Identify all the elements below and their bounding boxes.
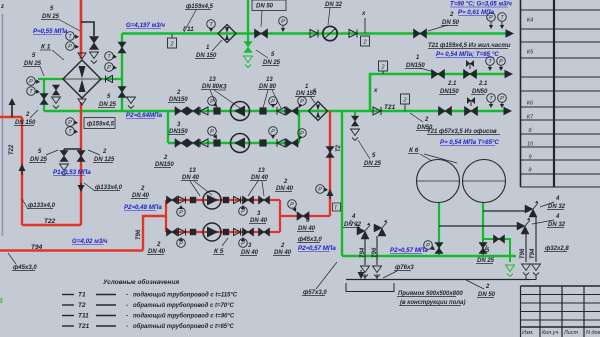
legend line Т1 [62, 294, 74, 296]
svg-text:ф159х4,5: ф159х4,5 [87, 121, 115, 128]
wire: green riser from K1 right to top main [121, 34, 123, 112]
svg-text:ф45х3,0: ф45х3,0 [298, 236, 322, 243]
tag box 2 top main [171, 34, 173, 38]
arrow up on T22 riser [21, 168, 23, 175]
gauge P K3 l3 [298, 129, 307, 138]
gauge P K5 discharge [288, 200, 297, 209]
wire: relief discharge 1 [535, 217, 537, 262]
svg-text:Р: Р [271, 129, 275, 135]
funnel K1 left drain [52, 97, 61, 104]
gauge P K1 left [27, 77, 36, 86]
valve top main x261 [255, 29, 268, 38]
node: K1 top connection [78, 53, 86, 59]
svg-text:Условные обозначения: Условные обозначения [103, 278, 179, 286]
svg-text:2: 2 [362, 40, 366, 46]
title block grid [521, 286, 600, 337]
svg-text:P2≈0,57 МПа: P2≈0,57 МПа [390, 247, 428, 254]
expansion tank 1 [417, 160, 460, 203]
svg-text:DN150: DN150 [169, 129, 188, 135]
wire: K5 upper pump branch [166, 199, 280, 201]
gauge P K3 u3 [298, 97, 307, 106]
wire: tank2 safety line [483, 210, 529, 212]
svg-text:DN 32: DN 32 [548, 204, 566, 210]
svg-text:К7: К7 [527, 115, 534, 121]
gauge P top main [279, 17, 288, 26]
wire: green supply top main Г11 [122, 32, 508, 35]
table: equipment list [521, 0, 600, 187]
svg-text:Т1: Т1 [78, 292, 86, 299]
svg-text:Р: Р [107, 65, 111, 71]
drain valve on stub x355 [352, 116, 359, 126]
green drain valve x248 [244, 42, 252, 53]
valve top main x420 [414, 29, 427, 38]
motor valve mid main [465, 107, 478, 116]
svg-text:DN150: DN150 [440, 89, 459, 95]
svg-text:4: 4 [351, 214, 356, 220]
wire: drain stub on mid main x355 [354, 111, 356, 119]
arrow down on red return [80, 183, 82, 189]
svg-text:ф133х4,0: ф133х4,0 [95, 184, 123, 191]
arrow down into pit [360, 270, 362, 273]
gauge P K5 u2 [239, 207, 248, 216]
svg-text:DN150: DN150 [155, 162, 174, 168]
svg-text:DN 150: DN 150 [15, 120, 36, 126]
valve K5 discharge [297, 212, 309, 220]
valve tank2 drop [479, 243, 487, 254]
svg-text:Р≈ 0,54 МПа Т=65°С: Р≈ 0,54 МПа Т=65°С [440, 139, 500, 146]
label DN50 top [252, 0, 286, 11]
valve K3 upper inlet 1 [175, 107, 187, 115]
check valve K3 upper [200, 107, 208, 115]
svg-text:Т94: Т94 [31, 244, 43, 251]
svg-text:Р: Р [300, 131, 304, 137]
gauge T mid end [487, 94, 496, 103]
svg-text:DN 40: DN 40 [148, 249, 166, 255]
svg-text:DN50: DN50 [472, 89, 488, 95]
svg-text:Г11: Г11 [183, 26, 194, 33]
wire: red mixing riser up to mid main [329, 111, 331, 216]
svg-text:DN 40: DN 40 [276, 186, 294, 192]
relief valve upper [525, 205, 533, 213]
valve K5 lower inlet [167, 228, 178, 236]
valve K3 lower outlet [286, 139, 298, 147]
svg-text:Р: Р [179, 210, 183, 216]
isolator K3 lower left [213, 139, 220, 146]
svg-text:Р: Р [500, 96, 504, 102]
svg-text:Изм.: Изм. [522, 330, 534, 336]
valve K5 upper out1 [243, 196, 254, 204]
svg-text:4: 4 [555, 196, 560, 202]
svg-text:DN 40: DN 40 [241, 250, 259, 256]
svg-text:Р: Р [499, 59, 503, 65]
svg-text:Т22: Т22 [44, 218, 56, 225]
svg-text:DN 25: DN 25 [364, 161, 382, 167]
svg-text:DN150: DN150 [406, 63, 425, 69]
valve mid main x445 [439, 107, 452, 116]
svg-text:2: 2 [280, 243, 285, 249]
svg-text:G=4,197 м3/ч: G=4,197 м3/ч [126, 22, 165, 29]
flow meter on top main [323, 26, 337, 40]
valve on green riser lower [118, 87, 126, 98]
svg-text:Т21 ф159х4,5 Из жил.части: Т21 ф159х4,5 Из жил.части [428, 42, 511, 49]
filter strainer on top main [218, 25, 236, 43]
check K5 lower out [234, 229, 241, 236]
funnel relief 1 [532, 264, 541, 271]
wire: red supply T1 from top into K1 [80, 0, 83, 59]
svg-text:К6: К6 [527, 101, 534, 107]
check K5 lower in [179, 229, 186, 236]
svg-text:DN 150: DN 150 [196, 53, 217, 59]
svg-text:2: 2 [402, 98, 406, 104]
svg-text:Р2≈0,64МПа: Р2≈0,64МПа [126, 112, 163, 119]
svg-text:х: х [361, 11, 366, 17]
svg-text:DN 25: DN 25 [263, 60, 281, 66]
svg-text:б: б [0, 298, 3, 305]
svg-text:2: 2 [156, 242, 161, 248]
arrow up on left supply stub [11, 104, 13, 117]
valve y74 [432, 70, 445, 79]
svg-text:4: 4 [555, 214, 560, 220]
valve K3 upper inlet 2 [187, 107, 199, 115]
funnel drain under safety valve [90, 52, 99, 59]
svg-text:Р≈ 0,61 МПа: Р≈ 0,61 МПа [458, 9, 495, 16]
legend line Т21 [62, 325, 74, 327]
filter strainer mid main [309, 102, 328, 121]
valve on green riser upper [118, 42, 126, 53]
svg-text:DN 125: DN 125 [94, 157, 115, 163]
svg-text:2: 2 [485, 284, 490, 290]
svg-text:P2≈0,48 МПа: P2≈0,48 МПа [124, 204, 162, 211]
wire: K5 outlet header vertical [279, 200, 281, 232]
gauge T K1 left [27, 87, 36, 96]
wire: green riser K1 left down to mid main [43, 79, 45, 111]
legend line Т11 [62, 315, 74, 317]
svg-text:z: z [0, 4, 4, 10]
svg-text:Р: Р [210, 129, 214, 135]
relief valve lower [517, 222, 525, 230]
svg-text:-: - [126, 314, 128, 320]
svg-text:2.1: 2.1 [447, 81, 457, 87]
tag box T riser [333, 203, 341, 211]
svg-text:Т94: Т94 [360, 247, 366, 258]
pump K3 lower [231, 134, 250, 153]
check valve after meter [349, 30, 357, 38]
wire: K3 pump group left vertical [167, 111, 169, 143]
wire: drain manifold [346, 279, 530, 281]
wire: discharge riser relief 2 [376, 236, 378, 265]
wire: relief drains to pit [526, 276, 536, 280]
svg-text:обратный трубопровод с t=70°С: обратный трубопровод с t=70°С [133, 302, 235, 309]
wire: K1 left outlet link [38, 78, 64, 80]
wire: discharge riser relief 1 [364, 239, 366, 265]
funnel tank drain [506, 265, 515, 272]
wire: left expansion tank drop [438, 202, 440, 256]
svg-text:Т11: Т11 [78, 313, 89, 320]
gauge T on T1 supply [66, 32, 75, 41]
svg-text:13: 13 [189, 168, 196, 174]
wire: red stub to left edge [0, 116, 22, 118]
relief valve riser 2 [374, 224, 382, 232]
svg-text:Р: Р [179, 241, 183, 247]
tag box 2 branch y74 [379, 61, 388, 71]
gauge P on T1 supply [66, 42, 75, 51]
svg-text:DN 25: DN 25 [30, 157, 48, 163]
svg-text:G=4,02 м3/ч: G=4,02 м3/ч [72, 238, 108, 245]
svg-text:ф133х4,0: ф133х4,0 [28, 202, 56, 209]
valve on red riser [326, 147, 334, 158]
pump K5 upper [203, 191, 221, 209]
svg-text:К3: К3 [219, 84, 227, 91]
isolator K5 lower right [223, 229, 229, 235]
wire: red bottom main T94 [0, 249, 143, 252]
valve on red return [77, 151, 85, 162]
pump K3 upper [231, 102, 250, 121]
svg-text:DN 25: DN 25 [42, 14, 60, 20]
svg-text:Р: Р [29, 79, 33, 85]
wire: green branch vertical to top continuation [247, 0, 249, 34]
wire: red return T22 horizontal [22, 224, 81, 226]
funnel under green drain valve [244, 56, 253, 63]
wire: branch T21 from residential y74 [370, 74, 508, 111]
gauge P mid end [498, 94, 507, 103]
svg-text:Кол.уч: Кол.уч [542, 330, 559, 336]
pit outline [346, 283, 394, 292]
svg-text:ф32х2,8: ф32х2,8 [545, 245, 569, 252]
check K5 upper out [234, 197, 241, 204]
arrow inlet mid main [504, 107, 513, 115]
funnel riser relief 1 [361, 266, 370, 273]
svg-text:Р: Р [241, 209, 245, 215]
gauge P end top main [487, 13, 496, 22]
gauge P K5 l1 [177, 239, 186, 248]
svg-text:2: 2 [424, 117, 429, 123]
funnel drain right of K1 [127, 97, 136, 104]
isolator K3 upper left [213, 107, 220, 114]
svg-text:DN 40: DN 40 [298, 226, 316, 232]
svg-text:Приямок 500х500х800: Приямок 500х500х800 [398, 291, 463, 297]
wire: green mid main T21 [44, 110, 506, 113]
svg-text:DN 40: DN 40 [274, 250, 292, 256]
wire: K5 outlet to riser [280, 215, 330, 217]
svg-text:-: - [126, 303, 128, 309]
svg-text:2: 2 [380, 65, 384, 71]
wire: K5 lower pump branch [166, 231, 280, 233]
pump K5 lower [203, 223, 221, 241]
legend line Т2 [62, 304, 74, 306]
svg-text:2: 2 [176, 90, 181, 96]
svg-text:Т21 ф57х3,5 Из офисов: Т21 ф57х3,5 Из офисов [427, 128, 497, 135]
wire: green bottom main to tanks [342, 255, 516, 258]
wire: tank1 safety line [439, 225, 521, 227]
svg-text:К4: К4 [527, 18, 533, 24]
svg-text:ф76х3: ф76х3 [395, 264, 414, 271]
check valve mid main [373, 107, 381, 115]
svg-text:13: 13 [266, 77, 273, 83]
svg-text:2: 2 [140, 186, 145, 192]
wire: right expansion tank drop [482, 202, 484, 256]
gauge P y74 [497, 57, 506, 66]
svg-text:Т21: Т21 [78, 323, 90, 330]
funnel riser relief 2 [373, 266, 382, 273]
svg-text:DN 32: DN 32 [325, 2, 343, 8]
svg-text:Р≈0,55 МПа: Р≈0,55 МПа [33, 28, 68, 35]
svg-text:обратный трубопровод с t=65°С: обратный трубопровод с t=65°С [133, 323, 235, 330]
relief valve riser 1 [357, 227, 365, 235]
gauge T top main [207, 20, 216, 29]
wire: K1 right outlet link [101, 78, 122, 80]
gauge P K5 l2 [239, 239, 248, 248]
gauge P K3 l1 [208, 127, 217, 136]
svg-text:DN 25: DN 25 [477, 258, 495, 264]
svg-text:ф45х3,0: ф45х3,0 [13, 264, 37, 271]
svg-text:10: 10 [527, 142, 534, 148]
gauge T y74 [486, 57, 495, 66]
svg-text:Р: Р [318, 187, 322, 193]
svg-text:DN 25: DN 25 [24, 61, 42, 67]
svg-text:Р≈ 0,54 МПа; Т=65 °С: Р≈ 0,54 МПа; Т=65 °С [436, 51, 499, 58]
isolator K3 upper right [259, 107, 266, 114]
motor valve y74 [464, 70, 477, 79]
svg-text:Т≈90 °С; G≈3,05 м3/ч: Т≈90 °С; G≈3,05 м3/ч [450, 1, 512, 8]
svg-text:DN 32: DN 32 [548, 222, 566, 228]
svg-text:Р1≈0,53 МПа: Р1≈0,53 МПа [53, 169, 91, 176]
svg-text:DN 50: DN 50 [478, 292, 496, 298]
wire: K5 inlet header vertical [165, 200, 167, 232]
svg-text:DN 40: DN 40 [250, 218, 268, 224]
svg-text:-: - [126, 324, 128, 330]
svg-text:К5: К5 [527, 50, 534, 56]
gauge P tank line [424, 241, 433, 250]
svg-text:Т96: Т96 [136, 229, 142, 240]
check valve before meter [310, 30, 318, 38]
svg-text:DN 25: DN 25 [99, 102, 117, 108]
svg-text:2: 2 [169, 42, 173, 48]
gauge P riser [316, 185, 325, 194]
svg-text:(в конструкции пола): (в конструкции пола) [400, 300, 465, 306]
svg-text:2.1: 2.1 [478, 81, 488, 87]
svg-text:К 1: К 1 [41, 44, 51, 51]
svg-text:13: 13 [209, 77, 216, 83]
valve tank drain branch [494, 235, 505, 243]
gauge P K1 right [105, 63, 114, 72]
wire: bypass link between return valves [64, 148, 81, 150]
funnel stub x355 [351, 129, 360, 136]
svg-text:Р: Р [241, 241, 245, 247]
gauge P K3 l2 [269, 127, 278, 136]
svg-text:Т96: Т96 [520, 248, 526, 259]
heat exchanger K1 [63, 60, 101, 98]
gauge P K3 u1 [208, 97, 217, 106]
check valve K3 upper out [277, 107, 285, 115]
arrow up riser [329, 193, 331, 199]
svg-text:Р: Р [290, 202, 294, 208]
svg-text:DN 40: DN 40 [251, 175, 269, 181]
boxed label f159x4.5 [84, 118, 115, 129]
svg-text:DN 50: DN 50 [256, 4, 274, 10]
svg-text:DN 40: DN 40 [132, 193, 150, 199]
svg-text:Т2: Т2 [336, 144, 342, 152]
valve K5 upper out2 [259, 196, 270, 204]
valve K3 upper outlet [286, 107, 298, 115]
valve K5 lower out2 [259, 228, 270, 236]
leader lines K3 labels [210, 90, 218, 109]
drawing margin line [2, 14, 4, 236]
check K5 upper in [179, 197, 186, 204]
valve tank1 drop [435, 243, 443, 254]
expansion tank 2 [463, 160, 506, 203]
svg-text:Лист: Лист [563, 330, 579, 336]
svg-text:К 5: К 5 [214, 248, 224, 255]
svg-text:Т94: Т94 [530, 248, 536, 259]
isolator K5 upper right [223, 197, 229, 203]
valve K3 lower inlet 2 [187, 139, 199, 147]
svg-text:13: 13 [258, 168, 265, 174]
svg-text:подающий трубопровод с t=90°С: подающий трубопровод с t=90°С [133, 313, 235, 320]
check valve K1 right outlet [106, 76, 113, 83]
svg-text:N док: N док [586, 330, 600, 336]
svg-text:2: 2 [449, 12, 454, 18]
svg-text:DN 80: DN 80 [259, 84, 277, 90]
arrow inlet y74 [505, 70, 514, 78]
svg-text:2: 2 [102, 149, 107, 155]
wire: red riser to K5 pumps [143, 216, 166, 251]
svg-text:Р: Р [300, 99, 304, 105]
gauge T K1 right [105, 52, 114, 61]
svg-text:ф57х3,0: ф57х3,0 [303, 289, 327, 296]
safety valve on T1 supply [90, 37, 99, 50]
wire: green riser T2 down to bottom main [341, 111, 343, 256]
isolator K5 upper left [190, 197, 196, 203]
isolator K3 lower right [259, 139, 266, 146]
svg-text:DN 80: DN 80 [202, 84, 220, 90]
drain valve K1 left [53, 85, 60, 95]
svg-text:-: - [126, 293, 128, 299]
svg-text:P2≈0,57 МПа: P2≈0,57 МПа [298, 245, 336, 252]
valve K5 upper inlet [167, 196, 178, 204]
gauge P red below K1 [66, 118, 75, 127]
funnel relief 2 [522, 264, 531, 271]
svg-text:Т2: Т2 [78, 302, 86, 309]
wire: relief discharge 2 [525, 234, 527, 262]
arrow: supply to building [506, 29, 515, 37]
valve K3 lower inlet 1 [175, 139, 187, 147]
svg-text:9: 9 [528, 155, 531, 161]
svg-text:2: 2 [283, 179, 288, 185]
gauge P K5 u1 [177, 208, 186, 217]
wire: tank drain branch with valve [483, 239, 510, 262]
vent mark x [364, 18, 366, 33]
valve K5 lower out1 [243, 228, 254, 236]
svg-text:2: 2 [163, 155, 168, 161]
svg-text:Т22: Т22 [9, 144, 15, 155]
svg-text:К 6: К 6 [409, 147, 419, 154]
svg-text:х: х [373, 88, 378, 94]
funnel under return bypass [60, 164, 69, 171]
wire: safety branch off T1 supply [81, 22, 94, 36]
tag box 2 mid main [401, 94, 410, 104]
svg-text:DN 50: DN 50 [442, 20, 460, 26]
tag box 2 after meter [361, 36, 370, 46]
svg-text:Т21: Т21 [384, 104, 396, 111]
svg-text:Р: Р [281, 19, 285, 25]
svg-text:Т96: Т96 [372, 247, 378, 258]
svg-text:Р: Р [68, 120, 72, 126]
svg-text:DN150: DN150 [169, 97, 188, 103]
svg-text:подающий трубопровод с t=115°С: подающий трубопровод с t=115°С [133, 292, 238, 299]
check valve K3 lower out [277, 139, 285, 147]
wire: red T22 riser left [21, 117, 23, 225]
svg-text:2: 2 [25, 112, 30, 118]
